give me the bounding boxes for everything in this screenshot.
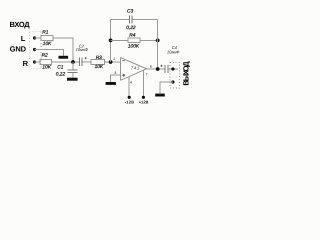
node pin2 — [109, 60, 113, 64]
svg-text:-12В: -12В — [125, 100, 135, 105]
svg-text:L: L — [21, 34, 26, 43]
terminal R — [33, 60, 36, 63]
svg-text:ВЫХОД: ВЫХОД — [181, 61, 190, 86]
output connector dashed box — [170, 63, 180, 88]
capacitor C1 (shunt to ground) — [72, 62, 74, 70]
node A — [71, 60, 75, 64]
output node — [156, 67, 160, 71]
ground bar (pin3) — [106, 82, 116, 85]
capacitor C3 — [130, 15, 133, 23]
capacitor C4 (series, polarized) — [165, 65, 168, 73]
minus sign pin2 — [122, 60, 124, 62]
ground bar (output) — [155, 94, 165, 97]
wire output ground — [160, 82, 173, 94]
svg-text:10K: 10K — [95, 64, 104, 70]
svg-text:R3: R3 — [96, 55, 102, 61]
svg-text:10мкФ: 10мкФ — [167, 50, 180, 55]
input connector dashed box — [30, 31, 41, 68]
svg-text:ВХОД: ВХОД — [10, 20, 31, 29]
terminal GND — [33, 48, 36, 51]
wire R2 to node A — [52, 61, 80, 63]
svg-text:R2: R2 — [42, 53, 48, 59]
R4 row junction left — [109, 39, 113, 43]
pin4 wire to -12V — [128, 77, 130, 97]
terminal +12V — [142, 96, 145, 99]
svg-text:10K: 10K — [42, 64, 51, 70]
ground bar (C1) — [67, 78, 78, 81]
svg-text:0.22: 0.22 — [56, 71, 66, 77]
feedback vertical wire — [110, 19, 112, 62]
terminal L — [33, 36, 36, 39]
output signal pin — [171, 67, 174, 70]
op-amp U1 741 — [121, 58, 147, 81]
pin7 wire to +12V — [142, 70, 144, 97]
svg-text:3: 3 — [114, 71, 116, 75]
svg-text:10мкФ: 10мкФ — [76, 47, 89, 52]
svg-text:741: 741 — [131, 66, 140, 71]
pin3 wire to ground — [111, 75, 121, 82]
svg-text:2: 2 — [113, 57, 115, 61]
svg-text:6: 6 — [150, 65, 152, 69]
resistor R1 — [41, 36, 53, 41]
wire R3 to pin2 node — [105, 61, 121, 63]
wire L to R1 — [35, 37, 42, 39]
output wire pin6 — [147, 68, 165, 70]
svg-text:7: 7 — [146, 73, 148, 77]
svg-text:C1: C1 — [57, 64, 63, 70]
svg-text:GND: GND — [10, 44, 27, 53]
plus sign pin3 — [122, 74, 125, 77]
output ground pin — [171, 80, 174, 83]
wire R4 to right junction — [140, 39, 158, 41]
wire R1 to node A — [53, 38, 73, 62]
svg-text:10K: 10K — [43, 41, 52, 47]
svg-text:R1: R1 — [42, 29, 48, 35]
svg-text:100K: 100K — [128, 44, 140, 50]
resistor R2 — [40, 60, 52, 65]
top feedback wire — [111, 18, 158, 20]
svg-text:+12В: +12В — [139, 100, 149, 105]
svg-text:C3: C3 — [127, 9, 133, 15]
terminal -12V — [128, 96, 131, 99]
svg-text:R: R — [23, 59, 29, 68]
svg-text:R4: R4 — [129, 32, 135, 38]
capacitor C2 (series, polarized) — [80, 58, 83, 66]
wire GND to ground — [35, 50, 64, 56]
feedback right vertical — [157, 19, 159, 69]
resistor R3 — [91, 60, 105, 65]
R4 row junction right — [156, 39, 160, 43]
resistor R4 — [128, 38, 140, 43]
wire to R4 — [111, 39, 129, 41]
svg-text:0,22: 0,22 — [126, 25, 136, 31]
wire R to R2 — [35, 61, 41, 63]
ground bar (input gnd) — [59, 56, 69, 59]
svg-text:4: 4 — [130, 81, 132, 85]
